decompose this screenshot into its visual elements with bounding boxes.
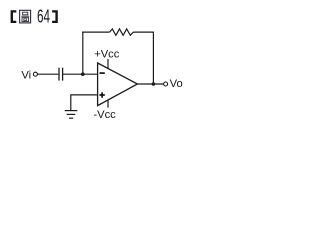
ground symbol — [65, 111, 78, 119]
resistor Rf (feedback) — [110, 29, 134, 35]
figure title left bracket 【 — [11, 10, 17, 23]
+Vcc supply pin — [107, 59, 109, 69]
wire from ground to non-inverting input — [71, 95, 98, 111]
-Vcc supply pin — [107, 100, 109, 108]
input terminal circle — [33, 72, 37, 76]
svg-text:+Vcc: +Vcc — [94, 48, 120, 60]
output terminal circle — [164, 82, 168, 86]
output wire — [137, 83, 163, 85]
svg-text:64: 64 — [37, 7, 50, 27]
wire feedback top right segment — [133, 31, 154, 33]
op-amp inverting input minus sign — [100, 72, 105, 74]
wire feedback left vertical — [82, 32, 84, 75]
junction node at inverting input — [81, 72, 85, 76]
svg-text:Vo: Vo — [170, 78, 183, 90]
op-amp non-inverting input plus sign — [99, 92, 104, 97]
wire feedback right vertical down to output node — [152, 32, 154, 84]
op-amp U1 triangle — [98, 63, 138, 106]
svg-text:Vi: Vi — [21, 69, 31, 81]
svg-text:-Vcc: -Vcc — [93, 109, 116, 121]
figure title character 圖 — [20, 10, 31, 23]
capacitor C (input coupling) — [59, 68, 63, 81]
wire from Vi terminal to capacitor — [38, 73, 59, 75]
wire from capacitor to op-amp inverting input — [63, 73, 98, 75]
junction node at output — [152, 82, 156, 86]
figure title right bracket 】 — [52, 10, 58, 23]
wire feedback top left segment — [82, 31, 109, 33]
